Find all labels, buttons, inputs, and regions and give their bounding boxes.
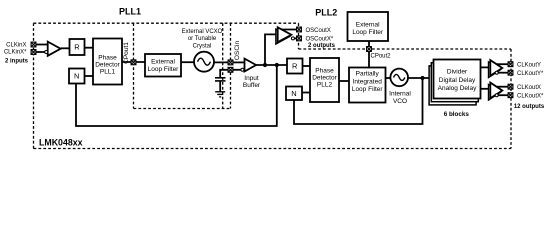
svg-text:N: N (291, 89, 296, 98)
svg-text:Partially: Partially (356, 71, 380, 78)
svg-text:PLL1: PLL1 (119, 7, 141, 17)
svg-text:2 outputs: 2 outputs (308, 43, 336, 49)
svg-text:VCO: VCO (393, 98, 407, 105)
svg-text:Internal: Internal (389, 90, 411, 97)
svg-text:Buffer: Buffer (243, 82, 261, 89)
svg-text:Detector: Detector (95, 62, 120, 69)
svg-text:OSCoutX*: OSCoutX* (306, 36, 334, 42)
svg-text:Analog Delay: Analog Delay (438, 85, 477, 92)
svg-text:R: R (292, 62, 298, 71)
svg-text:Loop Filter: Loop Filter (148, 66, 180, 73)
svg-text:R: R (74, 43, 80, 52)
svg-text:Integrated: Integrated (353, 78, 383, 85)
svg-text:OSCoutX: OSCoutX (306, 28, 331, 34)
svg-text:CPout1: CPout1 (123, 42, 130, 64)
svg-text:LMK048xx: LMK048xx (39, 138, 83, 148)
svg-text:Phase: Phase (98, 54, 117, 61)
svg-text:CPout2: CPout2 (371, 54, 392, 60)
svg-text:PLL1: PLL1 (100, 69, 116, 76)
svg-text:External: External (151, 59, 175, 66)
svg-text:Crystal: Crystal (193, 43, 212, 49)
svg-text:or Tunable: or Tunable (188, 36, 217, 42)
svg-text:Loop Filter: Loop Filter (352, 86, 384, 93)
svg-text:CLKinX: CLKinX (6, 43, 26, 49)
svg-text:CLKoutX: CLKoutX (517, 85, 541, 91)
svg-text:External VCXO: External VCXO (182, 29, 223, 35)
svg-text:12 outputs: 12 outputs (514, 104, 545, 110)
svg-text:CLKoutY: CLKoutY (517, 62, 541, 68)
svg-text:6 blocks: 6 blocks (444, 111, 470, 118)
svg-text:CLKoutY*: CLKoutY* (517, 71, 544, 77)
svg-text:N: N (74, 72, 79, 81)
svg-text:2 inputs: 2 inputs (5, 58, 29, 64)
svg-text:CLKoutX*: CLKoutX* (517, 93, 544, 99)
svg-text:PLL2: PLL2 (315, 8, 337, 18)
svg-text:CLKinX*: CLKinX* (4, 49, 27, 55)
svg-text:PLL2: PLL2 (317, 82, 333, 89)
svg-text:Divider: Divider (447, 69, 468, 76)
svg-text:Detector: Detector (312, 75, 337, 82)
svg-text:Phase: Phase (315, 68, 334, 75)
svg-text:Digital Delay: Digital Delay (439, 77, 476, 84)
svg-text:OSCin: OSCin (234, 41, 241, 61)
svg-text:Input: Input (244, 75, 259, 82)
svg-text:Loop Filter: Loop Filter (352, 29, 384, 36)
svg-text:External: External (356, 21, 380, 28)
